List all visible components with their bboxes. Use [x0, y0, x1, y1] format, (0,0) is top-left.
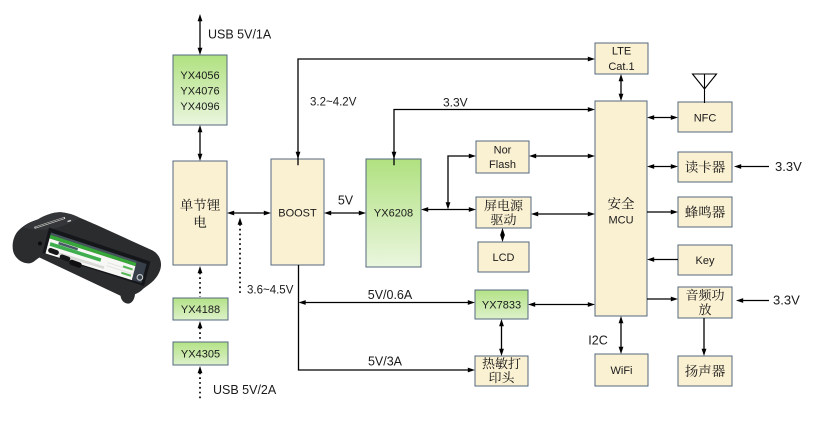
svg-text:5V/0.6A: 5V/0.6A	[368, 288, 413, 302]
wire MCU to WiFi I2C	[619, 316, 624, 354]
svg-text:Cat.1: Cat.1	[608, 61, 634, 73]
label USB 5V/2A	[213, 383, 277, 397]
dotted wire YX4188 to battery	[198, 266, 203, 297]
block YX6208 regulator	[366, 159, 421, 267]
wire LCD driver to LCD	[500, 228, 505, 242]
wire MCU to card reader	[647, 164, 678, 169]
net 5V/3A BOOST to thermal printer	[299, 265, 476, 372]
branch to Nor Flash	[446, 154, 476, 210]
wire YX6208 to LCD driver	[421, 207, 476, 212]
label 5V/0.6A	[368, 288, 413, 302]
svg-text:3.2~4.2V: 3.2~4.2V	[310, 97, 357, 109]
label 3.3V card reader	[775, 159, 802, 174]
svg-text:USB 5V/2A: USB 5V/2A	[213, 383, 277, 397]
svg-text:BOOST: BOOST	[278, 207, 317, 219]
svg-text:5V/3A: 5V/3A	[368, 354, 403, 368]
block WiFi	[595, 354, 648, 386]
label 3.6~4.5V	[247, 285, 294, 297]
svg-text:Flash: Flash	[489, 159, 516, 171]
wire charger to battery	[198, 125, 203, 161]
svg-text:LCD: LCD	[492, 252, 514, 264]
svg-text:MCU: MCU	[608, 214, 633, 226]
svg-text:3.6~4.5V: 3.6~4.5V	[247, 285, 294, 297]
block BOOST converter	[271, 159, 324, 265]
label 3.3V audio amp	[773, 293, 800, 308]
label I2C	[588, 333, 607, 347]
block LCD	[478, 242, 529, 272]
svg-text:YX4096: YX4096	[180, 101, 219, 113]
wire MCU to buzzer	[647, 210, 678, 215]
block battery 单节锂电	[173, 161, 227, 265]
svg-text:3.3V: 3.3V	[773, 293, 800, 308]
svg-text:Nor: Nor	[494, 144, 512, 156]
block YX4188	[173, 298, 228, 320]
svg-text:YX4076: YX4076	[180, 85, 219, 97]
block thermal printer 热敏打印头	[475, 356, 528, 386]
wire Nor Flash to MCU	[529, 154, 595, 159]
block audio amplifier 音频功放	[678, 287, 732, 318]
net 5V/0.6A BOOST to YX7833	[299, 300, 476, 305]
net 3.3V rail YX6208 to MCU	[392, 107, 595, 165]
block LTE Cat.1 module	[595, 43, 648, 74]
wire USB 5V/1A input to charger	[198, 14, 203, 55]
wire YX7833 to thermal printer	[499, 319, 504, 356]
svg-text:USB 5V/1A: USB 5V/1A	[208, 27, 272, 41]
wire audio amp to speaker	[702, 318, 707, 356]
wire LTE to MCU	[619, 74, 624, 101]
label 5V	[338, 193, 354, 207]
wire 3.3V to audio amp	[736, 298, 769, 303]
dotted wire YX4305 to YX4188	[198, 321, 203, 341]
label 3.3V main rail	[443, 96, 468, 110]
svg-text:YX4188: YX4188	[181, 304, 220, 316]
svg-text:YX4305: YX4305	[181, 348, 220, 360]
block YX4305	[173, 342, 228, 365]
svg-text:YX7833: YX7833	[482, 299, 521, 311]
wire BOOST to YX6208 5V	[324, 211, 366, 216]
wire Key to MCU	[647, 257, 678, 262]
wire LCD driver to MCU	[531, 212, 595, 217]
wire YX7833 to MCU	[528, 302, 595, 307]
block Nor Flash	[476, 141, 529, 173]
net 3.2~4.2V battery rail to LTE	[296, 57, 595, 166]
label 3.2~4.2V	[310, 97, 357, 109]
block buzzer 蜂鸣器	[678, 197, 732, 227]
block YX7833 regulator	[475, 290, 528, 319]
wire MCU to audio amp	[647, 297, 678, 302]
block secure MCU 安全MCU	[595, 101, 647, 316]
wire MCU to NFC	[647, 115, 678, 120]
wire battery to BOOST	[227, 211, 271, 216]
svg-text:YX6208: YX6208	[374, 207, 413, 219]
block speaker 扬声器	[678, 356, 732, 386]
dotted wire USB 5V/2A to YX4305	[198, 366, 203, 400]
antenna	[693, 74, 717, 103]
svg-text:NFC: NFC	[694, 112, 717, 124]
label USB 5V/1A	[208, 27, 272, 41]
svg-text:5V: 5V	[338, 193, 354, 207]
block Key	[678, 245, 732, 275]
svg-text:YX4056: YX4056	[180, 70, 219, 82]
svg-text:3.3V: 3.3V	[443, 96, 468, 110]
wire 3.3V to card reader	[734, 164, 769, 169]
block charger YX4056/YX4076/YX4096	[173, 55, 227, 125]
block LCD power driver 屏电源驱动	[476, 197, 531, 228]
dotted wire 3.6~4.5V sense	[238, 218, 243, 296]
svg-text:LTE: LTE	[612, 45, 631, 57]
svg-text:I2C: I2C	[588, 333, 607, 347]
label 5V/3A	[368, 354, 403, 368]
POS terminal photo	[13, 212, 161, 303]
block NFC	[678, 102, 732, 132]
svg-text:WiFi: WiFi	[611, 365, 633, 377]
svg-text:3.3V: 3.3V	[775, 159, 802, 174]
svg-text:Key: Key	[696, 255, 715, 267]
block card reader 读卡器	[678, 152, 732, 182]
